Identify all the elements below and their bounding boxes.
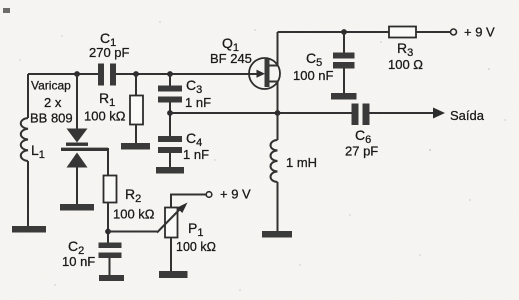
wire C3 to C4 [169, 103, 171, 137]
varicap D1 (top diode) [66, 129, 88, 146]
wire left vertical bottom [27, 161, 29, 226]
node C (R2/C2/P1 junction) [105, 229, 111, 235]
transistor Q1 circle [249, 58, 280, 89]
wire R3 to terminal [416, 31, 451, 33]
wire node C to P1 wiper [108, 231, 157, 233]
wire C5 top [343, 32, 345, 53]
wire C3 top [169, 74, 171, 86]
gate arrow of Q1 [257, 70, 266, 78]
wire varicap mid vertical to R2 [107, 148, 109, 176]
node A (varicap branch) [74, 71, 80, 77]
terminal +9V (P1) [206, 192, 212, 198]
inductor 1 mH [271, 140, 278, 182]
node F (C5 branch) [341, 29, 347, 35]
wire drain up [277, 32, 279, 66]
wire varicap to ground [76, 168, 78, 205]
wire varicap drop [76, 74, 78, 129]
ground under P1 [159, 271, 188, 278]
capacitor C3 [158, 86, 182, 103]
ground under R1 [121, 143, 150, 150]
ground under C5 [331, 93, 357, 100]
node G (source/inductor junction) [275, 110, 281, 116]
inductor L1 [21, 118, 28, 161]
wire P1 bottom [170, 238, 172, 272]
source stub [270, 81, 278, 83]
wire C4 bottom [169, 153, 171, 167]
varicap D2 (bottom diode) [67, 153, 88, 168]
output arrow [433, 108, 445, 119]
potentiometer P1 [165, 208, 178, 238]
resistor R3 [389, 27, 416, 38]
wire gate line C1 to Q1 gate [116, 73, 257, 75]
ground under L1 [12, 226, 46, 233]
wire P1 top to +9V terminal [171, 195, 206, 208]
ground under C2 [99, 275, 124, 281]
drain stub [270, 65, 278, 67]
resistor R1 [130, 96, 143, 125]
capacitor C4 [158, 136, 182, 153]
capacitor C6 [352, 104, 370, 126]
ground under varicap [60, 204, 94, 211]
wire C5 bottom [343, 69, 345, 94]
wire output line left [170, 112, 352, 114]
wire inductor top [277, 113, 279, 140]
wire top rail left [278, 31, 390, 33]
wire varicap middle to R2 [61, 148, 108, 151]
ground under C4 [156, 167, 184, 174]
wire source down [277, 82, 279, 114]
wire R2 bottom to C2 [107, 203, 109, 243]
node D (C3 branch) [167, 71, 173, 77]
wiper arrow of P1 [157, 203, 188, 233]
resistor R2 [104, 176, 117, 203]
wire C2 bottom [109, 258, 111, 275]
wire main gate line left of C1 [28, 73, 98, 75]
wire R1 bottom [135, 125, 137, 144]
channel bar of Q1 [265, 59, 270, 87]
terminal +9V (top) [451, 29, 457, 35]
wire R1 top [135, 74, 137, 96]
capacitor C1 [98, 64, 116, 86]
capacitor C2 [99, 243, 122, 259]
wire left vertical top [27, 74, 29, 118]
ground under inductor [262, 231, 292, 238]
node E (C3/C4 output junction) [167, 110, 173, 116]
wire inductor bottom [277, 182, 279, 231]
capacitor C5 [333, 53, 355, 69]
node B (R1 branch) [133, 71, 139, 77]
wire output line right [370, 112, 434, 114]
scan speck top left [3, 8, 10, 13]
